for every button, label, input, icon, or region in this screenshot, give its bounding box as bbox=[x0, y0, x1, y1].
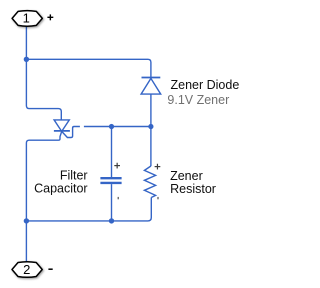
wire: resistor top lead from node C bbox=[150, 127, 152, 167]
label: minus sign at resistor bbox=[157, 197, 159, 199]
svg-text:2: 2 bbox=[23, 262, 30, 277]
node C junction dot bbox=[148, 124, 153, 129]
wire: top rail from node A to zener diode cathode bbox=[26, 59, 150, 77]
wire: D1 cathode drop to lower left rail down to port 2 bbox=[26, 131, 61, 221]
node D junction dot bbox=[24, 218, 29, 223]
zener diode D2 triangle bbox=[141, 78, 161, 94]
label: minus sign at port 2 bbox=[48, 268, 52, 270]
wire: D1 apex to output step up to mid rail bbox=[62, 127, 80, 138]
label: minus sign at capacitor bbox=[117, 197, 119, 199]
svg-text:Zener Diode: Zener Diode bbox=[171, 78, 240, 92]
svg-text:Zener: Zener bbox=[170, 169, 203, 183]
wire: zener diode anode lead down to node C bbox=[150, 94, 152, 126]
wire: bottom rail down to port 2 bbox=[25, 221, 27, 262]
capacitor C1 bottom plate bbox=[100, 182, 121, 184]
wire: left vertical from port 1 down to diode D1 anode bbox=[26, 26, 61, 120]
svg-text:Resistor: Resistor bbox=[170, 182, 216, 196]
label: plus sign at port 1 bbox=[47, 14, 53, 20]
port 2 bbox=[12, 262, 42, 278]
svg-text:9.1V Zener: 9.1V Zener bbox=[167, 93, 229, 107]
wire: capacitor top lead from node B bbox=[111, 127, 113, 178]
diode D1 cathode bar bbox=[54, 130, 70, 132]
capacitor C1 top plate bbox=[100, 177, 121, 179]
wire: mid rail from gap to node C bbox=[84, 126, 151, 128]
node E junction dot bbox=[109, 218, 114, 223]
zener diode D2 cathode bar bbox=[142, 77, 161, 79]
wire: resistor bottom lead and bottom rail to node D bbox=[26, 197, 151, 221]
node A junction dot bbox=[24, 57, 29, 62]
node B junction dot bbox=[109, 124, 114, 129]
label: plus sign at capacitor bbox=[114, 163, 120, 169]
resistor R1 zigzag bbox=[144, 166, 155, 198]
port 1 bbox=[12, 11, 42, 27]
diode D1 triangle bbox=[54, 120, 69, 131]
wire: capacitor bottom lead to node E bbox=[111, 184, 113, 221]
svg-text:1: 1 bbox=[23, 11, 30, 26]
svg-text:Capacitor: Capacitor bbox=[34, 182, 88, 196]
svg-text:Filter: Filter bbox=[60, 169, 88, 183]
label: plus sign at resistor bbox=[155, 164, 161, 170]
